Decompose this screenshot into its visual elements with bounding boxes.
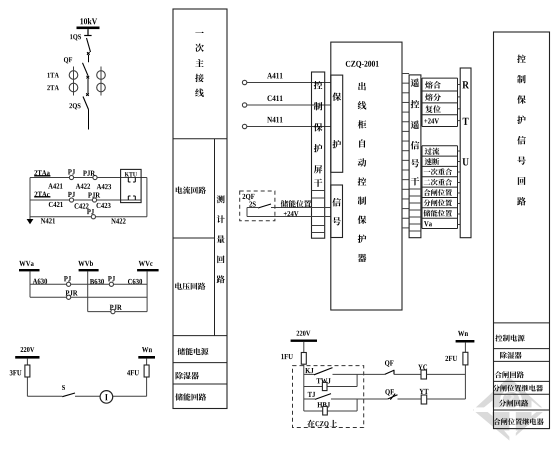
terminal N411 bbox=[242, 124, 246, 128]
disconnector 2QS blade bbox=[83, 97, 89, 110]
signal cell second reclose text bbox=[424, 179, 452, 186]
legend text voltage loop bbox=[175, 283, 205, 290]
wire WVa drop bbox=[29, 271, 31, 297]
label N422 bbox=[111, 218, 125, 223]
signal cell reset text bbox=[425, 105, 440, 113]
legend text metering loop bbox=[217, 195, 225, 283]
coil YC bbox=[421, 370, 427, 379]
CT winding bar 2TAa bbox=[34, 175, 50, 177]
node 1QS lower contact bbox=[87, 52, 90, 55]
wire Wn drop bbox=[464, 343, 466, 353]
legend divider storage-power bbox=[173, 362, 227, 364]
right cell control power text bbox=[495, 335, 524, 342]
right cell close-pos relay text bbox=[494, 418, 544, 425]
relay-box protection cell bbox=[331, 75, 343, 172]
label on-CZQ bbox=[307, 420, 337, 428]
wire busbar tap bbox=[84, 29, 91, 35]
relay-box protection text bbox=[332, 92, 341, 148]
fuse 1FU label bbox=[281, 354, 292, 359]
busbar Wn left bbox=[138, 356, 155, 359]
terminal PJR row2 bbox=[67, 295, 71, 299]
contact KJ bbox=[304, 368, 333, 375]
terminal PJR row3 bbox=[111, 310, 115, 314]
label PJ neutral bbox=[87, 209, 94, 214]
signal cell first reclose text bbox=[424, 168, 452, 175]
wire stubs cells to RTU bbox=[458, 85, 461, 225]
signal cell overcurrent text bbox=[425, 148, 440, 155]
busbar 10kV bbox=[77, 27, 100, 30]
legend text primary wiring bbox=[195, 32, 204, 97]
label A630 bbox=[33, 279, 47, 284]
legend divider dehumidifier bbox=[173, 383, 227, 385]
relay HBJ label bbox=[317, 402, 330, 407]
wire phase C421 bbox=[30, 199, 141, 201]
label A421 bbox=[48, 183, 62, 188]
wire QF to YT bbox=[398, 398, 422, 400]
label A423 bbox=[97, 184, 111, 189]
wire +24V signal bbox=[247, 216, 331, 218]
terminal PJ on A421 bbox=[69, 175, 73, 179]
terminal strip telecontrol text bbox=[411, 78, 420, 185]
wire N411 bbox=[247, 126, 331, 128]
heater EH bbox=[100, 391, 113, 404]
legend text dehumidifier bbox=[176, 372, 199, 380]
switch 2S blade bbox=[247, 204, 271, 208]
circuit breaker QF blade bbox=[83, 63, 89, 76]
RTU letter T bbox=[463, 118, 469, 125]
node 10kV busbar label bbox=[80, 18, 97, 24]
current transformer 1TA/2TA right pair bbox=[97, 67, 106, 96]
label 2TAa bbox=[34, 170, 49, 175]
ground arrow N421 bbox=[27, 219, 34, 224]
label PJ C-phase bbox=[68, 192, 75, 197]
busbar Wn label mid bbox=[458, 331, 468, 336]
wire HBJ row bbox=[304, 410, 357, 412]
right column vertical text bbox=[517, 55, 526, 206]
wire QF to YC bbox=[394, 373, 421, 375]
protection unit vertical text bbox=[358, 82, 367, 262]
busbar 220V left bbox=[15, 356, 39, 359]
signal cells lower box bbox=[422, 146, 458, 229]
wire control left rail bbox=[303, 364, 305, 411]
wire YT to rail bbox=[427, 398, 466, 400]
terminal C411 bbox=[242, 103, 246, 107]
signal cell storage position text bbox=[424, 210, 452, 217]
contact QF trip label bbox=[385, 389, 394, 395]
wire voltage row PJR-B bbox=[88, 311, 147, 313]
wire 2QS outgoing bbox=[88, 110, 90, 130]
terminal strip telecontrol box bbox=[409, 75, 421, 238]
contact QF close bbox=[385, 370, 394, 375]
terminal A411 bbox=[242, 80, 246, 84]
legend column box bbox=[173, 9, 227, 409]
signal cell fuse-open text bbox=[425, 93, 441, 101]
mechanism dashed box CZQ bbox=[293, 366, 364, 428]
label +24V bbox=[284, 211, 299, 216]
RTU letter U bbox=[462, 158, 468, 165]
fuse 2FU label bbox=[445, 356, 457, 361]
protection unit CZQ-2001 box bbox=[331, 42, 402, 310]
fuse 2FU bbox=[463, 352, 468, 365]
wire KTU right rail bbox=[146, 178, 148, 217]
legend text storage power bbox=[178, 348, 209, 355]
coil TWJ bbox=[322, 382, 327, 390]
busbar WVa bbox=[19, 269, 40, 271]
relay TWJ label bbox=[317, 378, 331, 383]
legend text storage loop bbox=[175, 393, 206, 400]
contact KJ label bbox=[305, 368, 313, 373]
label PJ row1b bbox=[108, 276, 115, 281]
label C411 bbox=[267, 95, 282, 101]
coil YC label bbox=[418, 365, 427, 370]
terminal strip telecontrol ticks bbox=[409, 189, 421, 231]
signal cell open position text bbox=[424, 199, 452, 206]
busbar 220V label mid bbox=[297, 331, 311, 336]
coil HBJ bbox=[323, 406, 328, 415]
label C421 bbox=[49, 202, 63, 207]
label C422 bbox=[74, 203, 88, 208]
relay-box signal text bbox=[332, 198, 341, 225]
signal cells upper box bbox=[422, 78, 458, 126]
pin KTU top pins bbox=[128, 178, 135, 183]
wire storage-position signal bbox=[271, 207, 331, 209]
terminal PJR on C421 bbox=[92, 198, 96, 202]
wire voltage row PJR-A bbox=[30, 296, 147, 298]
fuse 1FU bbox=[301, 353, 306, 365]
wire phase A421 bbox=[30, 177, 147, 179]
wire QF to 2QS bbox=[87, 79, 89, 94]
RTU box bbox=[460, 68, 471, 238]
wire voltage row A630 bbox=[30, 283, 147, 285]
label 2TAc bbox=[35, 192, 50, 197]
legend inner vertical bbox=[214, 139, 216, 336]
terminal strip control-panel box bbox=[312, 72, 325, 238]
busbar WVa label bbox=[19, 261, 34, 266]
coil YT label bbox=[419, 389, 428, 394]
label A411 bbox=[267, 73, 282, 79]
current transformer 1TA/2TA left pair bbox=[69, 67, 78, 96]
meter KTU label bbox=[125, 172, 137, 176]
signal cell close position text bbox=[424, 189, 452, 196]
RTU letter R bbox=[462, 81, 469, 88]
switch S blade bbox=[62, 393, 75, 397]
node 2QS upper contact bbox=[86, 93, 89, 96]
label PJ row1a bbox=[64, 276, 71, 281]
switch S label bbox=[62, 385, 65, 390]
busbar Wn mid bbox=[456, 340, 475, 343]
wire 1QS to QF bbox=[88, 55, 90, 62]
wire YC to rail bbox=[427, 373, 466, 375]
contact TJ label bbox=[308, 392, 315, 397]
legend divider current/voltage bbox=[173, 237, 215, 239]
disconnector 1QS blade bbox=[87, 38, 91, 52]
label PJR row3 bbox=[110, 305, 122, 310]
wire A411 bbox=[247, 82, 331, 84]
CT winding bar 2TAc bbox=[34, 196, 50, 198]
fuse 3FU label bbox=[10, 370, 22, 375]
meter KTU box bbox=[121, 169, 142, 202]
terminal PJ on N421 bbox=[91, 215, 95, 219]
signal cell fuse-close text bbox=[425, 81, 441, 89]
wire heater row bbox=[27, 395, 146, 397]
right column box bbox=[494, 32, 550, 429]
watermark logo bbox=[473, 377, 545, 441]
node QF lower contact bbox=[87, 76, 90, 79]
wire WVb drop bbox=[87, 271, 89, 311]
label B630 bbox=[90, 279, 104, 284]
fuse 4FU bbox=[144, 365, 149, 377]
label storage position bbox=[281, 200, 311, 207]
signal cell Va text bbox=[424, 221, 432, 226]
legend divider main-wiring bbox=[173, 138, 227, 140]
wire KJ to QF bbox=[333, 373, 385, 375]
wire stubs CZQ to telecontrol strip bbox=[402, 74, 409, 228]
contact TJ bbox=[304, 394, 331, 400]
signal cell +24V text bbox=[424, 118, 439, 123]
label PJ A-phase bbox=[68, 169, 75, 174]
aux-switch 2QF dashed box bbox=[240, 191, 275, 221]
label N411 bbox=[267, 117, 282, 123]
contact QF close label bbox=[385, 360, 394, 366]
wire 220V mid drop bbox=[303, 342, 305, 353]
current transformer 1TA label bbox=[47, 73, 58, 78]
contact QF trip bbox=[388, 394, 398, 400]
relay-box signal cell bbox=[331, 185, 343, 238]
wire TJ to QF bbox=[331, 398, 388, 400]
terminal PJ on B630 bbox=[109, 282, 113, 286]
fuse 4FU label bbox=[127, 370, 139, 375]
right column dividers bbox=[494, 323, 550, 410]
terminal PJ on A630 bbox=[67, 282, 71, 286]
busbar WVc bbox=[137, 269, 159, 271]
wire HBJ riser bbox=[356, 399, 358, 411]
busbar 220V mid bbox=[291, 340, 317, 342]
fuse 3FU bbox=[25, 365, 30, 377]
disconnector 2QS label bbox=[69, 103, 80, 109]
busbar WVb label bbox=[78, 261, 93, 267]
busbar Wn label left bbox=[142, 347, 152, 352]
current transformer 2TA label bbox=[47, 85, 59, 90]
label C630 bbox=[128, 279, 142, 284]
label C423 bbox=[96, 203, 110, 208]
coil YT bbox=[421, 395, 427, 404]
busbar 220V label left bbox=[21, 347, 35, 352]
right cell dehumidifier text bbox=[500, 352, 522, 359]
terminal PJR on A421 bbox=[93, 175, 97, 179]
wire CT secondary left rail bbox=[29, 178, 31, 220]
wire 2S to +24V bbox=[246, 208, 248, 217]
wire TWJ row bbox=[304, 386, 357, 388]
legend text current loop bbox=[176, 186, 206, 193]
terminal strip ticks bbox=[312, 191, 325, 233]
circuit breaker QF label bbox=[64, 57, 72, 63]
label 2S bbox=[249, 202, 255, 207]
label PJR row2 bbox=[66, 290, 78, 295]
right cell opening loop text bbox=[499, 400, 528, 407]
busbar WVc label bbox=[139, 261, 153, 266]
wire TWJ riser bbox=[356, 374, 358, 386]
wire heater right riser bbox=[146, 359, 148, 397]
wire control right rail bbox=[464, 365, 466, 399]
signal cell quick-break text bbox=[425, 158, 440, 165]
label 2QF bbox=[243, 194, 255, 200]
wire C411 bbox=[247, 104, 331, 106]
wire WVc drop bbox=[146, 271, 148, 311]
busbar WVb bbox=[79, 269, 99, 271]
right cell closing loop text bbox=[495, 371, 524, 378]
label A422 bbox=[76, 184, 90, 189]
label N421 bbox=[41, 218, 55, 223]
label PJR C-phase bbox=[88, 192, 100, 197]
legend divider measuring bottom bbox=[173, 335, 227, 337]
label PJR A-phase bbox=[83, 171, 95, 176]
disconnector 1QS label bbox=[70, 34, 81, 40]
pin KTU bottom pins bbox=[128, 196, 135, 200]
wire neutral N421 bbox=[30, 216, 147, 218]
protection unit CZQ-2001 label bbox=[346, 61, 379, 68]
terminal strip control-panel text bbox=[314, 81, 323, 187]
terminal PJ on C421 bbox=[69, 198, 73, 202]
wire 220V drop bbox=[26, 359, 28, 397]
right cell open-pos relay text bbox=[493, 385, 543, 392]
